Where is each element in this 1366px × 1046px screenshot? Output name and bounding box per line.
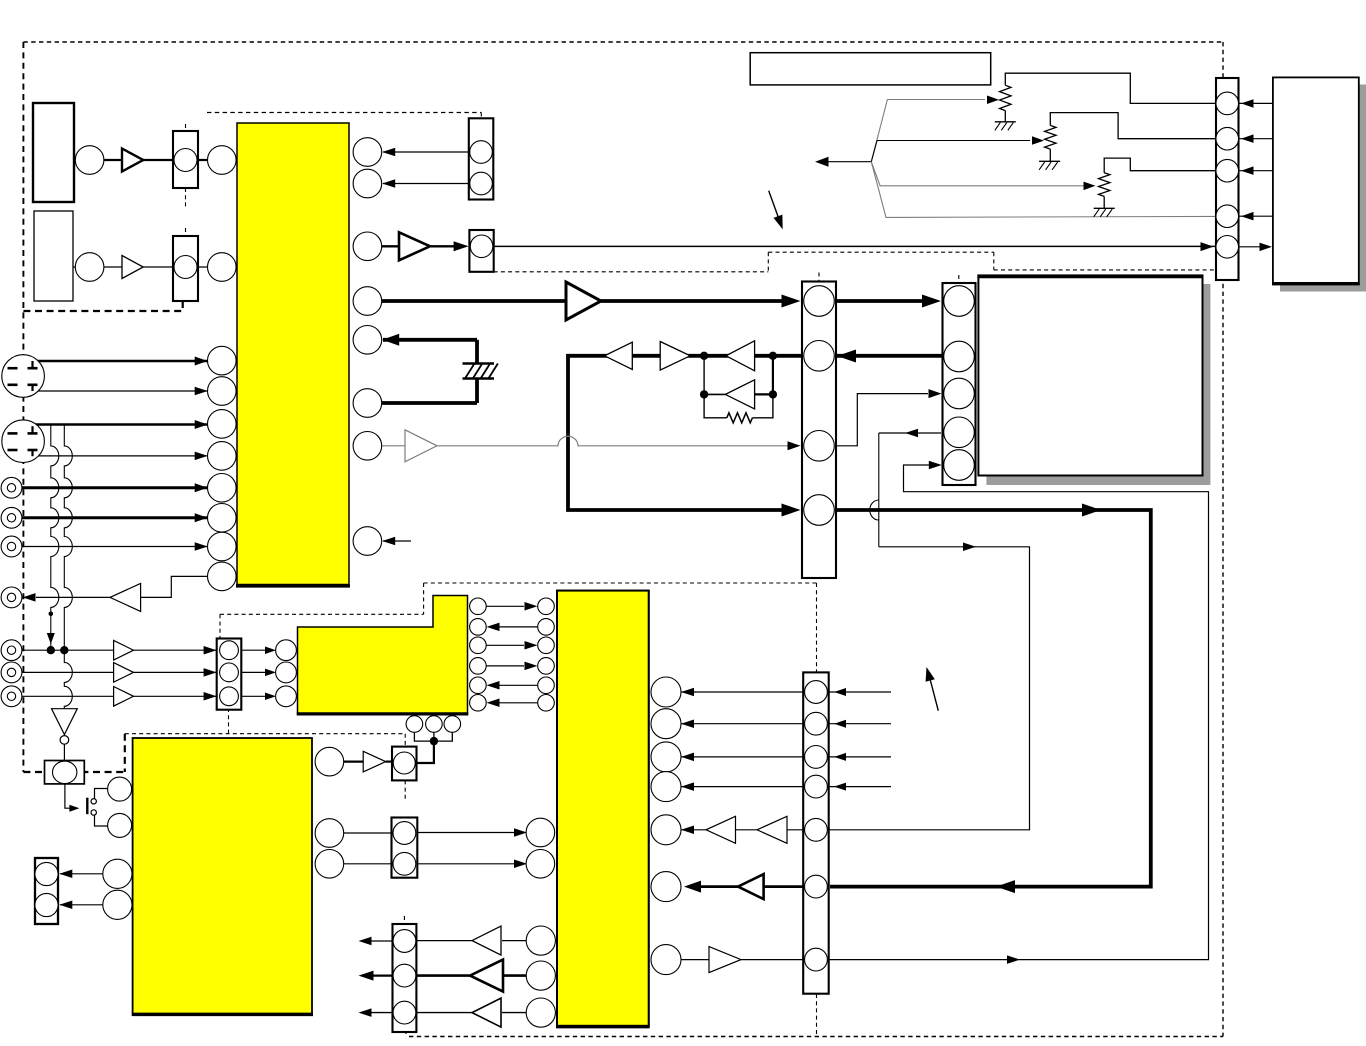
dashed main border bottom bbox=[409, 1036, 1223, 1038]
U1 right pins bbox=[353, 138, 382, 167]
dashed inner border y252 bbox=[768, 251, 994, 253]
wire RCA row696 through buffer to J7 bbox=[22, 695, 217, 697]
dashed section border jog x423 bbox=[423, 583, 425, 614]
wire row267 A2 to U1 bbox=[73, 266, 208, 268]
connector J10 (row246) bbox=[469, 230, 493, 272]
dashed inner border y271 bbox=[494, 271, 769, 273]
box U7 (top-right white box) bbox=[1273, 77, 1359, 284]
label frame at top bbox=[750, 53, 991, 85]
U3 left small pins bbox=[538, 598, 555, 615]
RCA jack row672 bbox=[1, 662, 22, 683]
fan branch 3 to resistor R3 bbox=[871, 162, 1084, 186]
wire row160 A1 to U1 bbox=[74, 159, 208, 161]
dashed section divider x816 upper bbox=[816, 583, 818, 672]
inverter row597 bbox=[110, 583, 141, 611]
IC block U3 (tall yellow right) bbox=[557, 591, 649, 1026]
wires U4 to J8 left bbox=[60, 873, 103, 875]
dashed section border bottom-left corner bbox=[23, 771, 124, 773]
dashed tick below connector J7 bbox=[228, 708, 230, 734]
wire RCA row488 bbox=[22, 486, 208, 489]
dashed tick above connector J4 bbox=[818, 273, 820, 282]
wire row446 to J5 row3 bbox=[836, 394, 928, 446]
connector J11 (3-pin bottom) bbox=[393, 924, 417, 1032]
wire row446 grey through buffer bbox=[382, 445, 405, 447]
wire RCA row547 bbox=[22, 546, 208, 548]
dashed inner border jog x993 bbox=[993, 252, 995, 270]
dashed section border horizontal y614 bbox=[220, 613, 424, 615]
wire row246 U1 to J10 to J6 bbox=[382, 245, 400, 247]
wire row576 to inverter to RCA out bbox=[141, 576, 208, 597]
dashed inner border jog x768 bbox=[767, 252, 769, 272]
IC block U1 (tall yellow) bbox=[237, 123, 349, 585]
connector J5 (5-pin) bbox=[943, 283, 976, 485]
dashed inner border y112 bbox=[207, 112, 481, 114]
RCA jack row650 bbox=[1, 640, 22, 661]
dashed tick above connector J5 bbox=[958, 275, 960, 283]
pin circles after J1 J2 bbox=[75, 146, 104, 175]
fan branch 1 to resistor R1 bbox=[871, 100, 985, 162]
dashed ticks connector J9 bbox=[404, 734, 406, 748]
vertical tap wire x50 with hops bbox=[51, 425, 59, 651]
vertical tap wire x64 with hops bbox=[64, 425, 72, 709]
dashed section border horizontal y583 bbox=[424, 582, 817, 584]
box U6 (mid-right white box) bbox=[978, 275, 1202, 475]
RCA jack row597 output bbox=[1, 587, 22, 608]
U3 left pins rows 833 864 bbox=[526, 818, 555, 847]
RCA jack row547 bbox=[1, 536, 22, 557]
buffer row246 bbox=[399, 232, 430, 260]
resistor R4 bbox=[727, 413, 753, 423]
IC block U4 (bottom-left yellow) bbox=[133, 738, 312, 1014]
DIN connector V1 bbox=[2, 355, 45, 398]
oscillator box with ellipse bbox=[45, 761, 85, 784]
wires U2 to U3 handshake rows bbox=[486, 605, 524, 607]
box A1 (top-left rectangle) bbox=[33, 103, 74, 202]
buffers rows 650 672 696 bbox=[114, 640, 134, 660]
U1 left pins bbox=[208, 146, 237, 175]
dashed main border left bbox=[22, 42, 24, 772]
inverter T3 row356 bbox=[726, 341, 755, 371]
DIN connector V2 bbox=[2, 420, 45, 463]
inverter T1 row356 bbox=[605, 342, 633, 369]
dashed main border right bbox=[1222, 42, 1224, 1037]
resistor R3 with ground bbox=[1099, 173, 1110, 197]
dashed section border horizontal y734 bbox=[125, 733, 405, 735]
dashed tick above connector J7 bbox=[219, 614, 221, 641]
buffer J2 row267 bbox=[122, 256, 143, 279]
inverters rows 941 976 1013 bbox=[472, 926, 501, 955]
U2 bottom pins bracket to junction bbox=[414, 732, 452, 741]
buffer bus row301 bbox=[566, 282, 601, 320]
buffer J1 row160 bbox=[122, 149, 143, 172]
RCA jack row696 bbox=[1, 686, 22, 707]
fan-out arrow top right bbox=[828, 161, 871, 163]
dashed main border top bbox=[23, 41, 1223, 43]
dashed tick above connector J2 bbox=[185, 228, 187, 236]
wire RCA row650 through buffer to J7 bbox=[22, 649, 217, 651]
inverter T4 bbox=[725, 380, 754, 409]
inverter pointing down with bubble bbox=[52, 709, 78, 735]
wires U3 right rows 692-787 from J12 bbox=[681, 691, 805, 693]
buffer row762 bbox=[363, 751, 386, 772]
chassis ground symbol bbox=[463, 362, 495, 364]
fan branch 4 long grey to J6 row4 bbox=[871, 162, 1216, 218]
DIN tube V1 wires bbox=[32, 360, 208, 363]
wire row183 J3 to U1 bbox=[383, 183, 469, 185]
wire stub row541 bbox=[383, 540, 411, 542]
dashed section divider x816 lower bbox=[816, 994, 818, 1037]
switch SW1 bbox=[86, 798, 88, 815]
connector J10b (2-pin) bbox=[392, 818, 418, 878]
resistor R2 with ground bbox=[1045, 125, 1056, 149]
connector J6 (top right strip) bbox=[1216, 78, 1239, 280]
U4 left pins bbox=[108, 777, 132, 801]
connector J9 (1-pin) bbox=[392, 747, 417, 781]
oscillator box output to switch bbox=[65, 784, 72, 808]
wires U4 rows 833 864 to J10b to U3 bbox=[344, 832, 392, 834]
junction dots row356 cluster bbox=[700, 352, 708, 360]
connector J7 (3-pin left) bbox=[217, 639, 242, 710]
wire RCA row672 through buffer to J7 bbox=[22, 671, 217, 673]
dashed sub-box bottom top-left bbox=[23, 310, 182, 312]
dashed sub-box right stub top-left bbox=[182, 301, 184, 311]
U3 left pins rows 941 976 1013 bbox=[526, 926, 555, 955]
dashed ticks connector J11 bbox=[403, 916, 405, 924]
U2 right pins bbox=[470, 598, 487, 615]
RCA jack row488 bbox=[1, 477, 22, 498]
box A2 (lower-left rectangle) bbox=[34, 211, 73, 301]
shadow of box U7 bbox=[1280, 85, 1366, 292]
fan branch 2 to resistor R2 bbox=[871, 141, 1030, 162]
connector J4 (middle tall) bbox=[802, 282, 836, 579]
DIN tube V2 wires bbox=[32, 423, 208, 426]
wire row152 J3 to U1 bbox=[383, 151, 469, 153]
annotation arrow bottom bbox=[930, 677, 939, 711]
wire U4 pin762 through buffer to J9 bbox=[344, 760, 364, 762]
wire row830 double inverter and long loop bbox=[681, 829, 706, 831]
shadow of box U6 bbox=[986, 284, 1210, 485]
connector J1 bbox=[173, 131, 198, 188]
U2 bottom pins bbox=[406, 716, 423, 733]
wires U3 outputs rows 941 976 1013 through inverters to J11 bbox=[502, 940, 526, 942]
connector J8 (far-left 2-pin) bbox=[35, 858, 58, 924]
U2 left pins bbox=[276, 640, 297, 661]
resistor R1 with ground bbox=[1000, 85, 1011, 110]
wire row959 buffer and long right loop bbox=[681, 959, 709, 961]
wires J6 to U7 bbox=[1239, 102, 1273, 104]
inverters row830 bbox=[706, 816, 736, 843]
wire loop row340-403 with chassis ground bbox=[383, 338, 477, 342]
inverter row887 thick bbox=[738, 874, 764, 899]
connector J2 bbox=[173, 236, 198, 301]
connector J3 bbox=[469, 118, 494, 199]
wires J7 to U2 pins bbox=[241, 649, 272, 651]
U3 right pins bbox=[651, 677, 681, 707]
connector J12 (bottom tall) bbox=[803, 672, 829, 993]
buffer row959 bbox=[709, 947, 741, 973]
dashed inner border y269 bbox=[994, 269, 1223, 271]
inverter T2 row356 bbox=[660, 342, 690, 371]
wire bus row301 U1 to J4 to J5 bbox=[382, 299, 566, 303]
IC block U2 (yellow L-shape) bbox=[298, 596, 468, 714]
wire RCA row518 bbox=[22, 516, 208, 519]
buffer row446 grey bbox=[405, 430, 437, 462]
dashed tick above connector J3 bbox=[480, 113, 482, 119]
dashed ticks connector J1 bbox=[185, 124, 187, 131]
wire bus row356 with inverter cluster bbox=[605, 354, 942, 358]
feedback branch with inverter T4 and resistor R4 bbox=[703, 356, 705, 395]
RCA jack row518 bbox=[1, 507, 22, 528]
annotation arrow top bbox=[769, 191, 780, 221]
U4 right pins bbox=[315, 747, 344, 776]
